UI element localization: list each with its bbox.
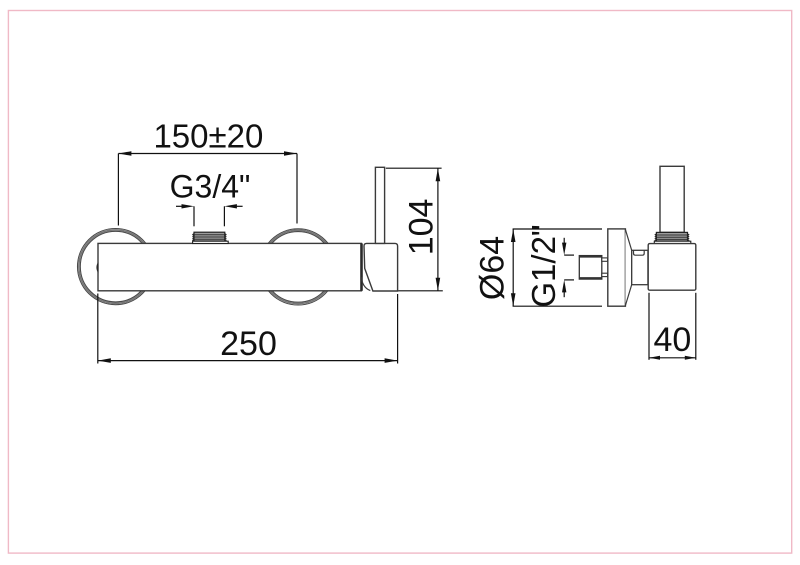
- ext line left: [117, 154, 119, 226]
- pipe thread: [655, 232, 689, 241]
- dim line: [98, 360, 398, 362]
- handle end cap: [364, 243, 398, 291]
- escutcheon cone: [625, 230, 631, 306]
- bar left cap arc: [96, 262, 98, 273]
- ext line top: [513, 228, 602, 230]
- arrow left: [649, 356, 660, 360]
- arrow top: [436, 168, 441, 181]
- dim line: [437, 168, 439, 291]
- arrow right: [385, 358, 398, 363]
- dimension 104: [386, 168, 443, 291]
- ext line right: [695, 293, 697, 360]
- pipe flange: [654, 241, 691, 243]
- arrow bottom: [436, 278, 441, 291]
- right escutcheon circle: [260, 229, 336, 305]
- svg-text:G3/4": G3/4": [170, 169, 251, 205]
- svg-text:Ø64: Ø64: [474, 236, 512, 300]
- G3/4 leader left: [176, 204, 194, 226]
- svg-text:G1/2": G1/2": [525, 224, 562, 307]
- svg-text:150±20: 150±20: [153, 118, 263, 155]
- dimension Ø64: [511, 229, 602, 306]
- G1/2 nipple: [579, 256, 602, 280]
- mixer body bar: [98, 243, 361, 290]
- thread relief ticks top: [602, 258, 608, 261]
- ext line right: [397, 294, 399, 364]
- dim line: [649, 357, 696, 359]
- dim line: [118, 153, 297, 155]
- svg-text:104: 104: [403, 199, 441, 256]
- dimension 40: [649, 293, 696, 360]
- G3/4 leader right: [224, 204, 242, 226]
- neck: [632, 250, 648, 284]
- arrow left: [118, 151, 131, 156]
- G1/2 leader bottom: [562, 280, 574, 297]
- svg-text:250: 250: [220, 325, 277, 363]
- handle lower arc: [362, 277, 371, 290]
- arrow top: [511, 229, 516, 242]
- dim line: [512, 229, 514, 306]
- lever rod: [375, 167, 384, 243]
- bar right thick edge: [360, 243, 363, 290]
- arrow right: [284, 151, 297, 156]
- ext line bottom: [398, 290, 443, 292]
- arrow right: [685, 356, 696, 360]
- G3/4 flange: [193, 241, 229, 243]
- ext line top: [386, 167, 442, 169]
- valve body block: [648, 244, 696, 291]
- ext line right: [296, 154, 298, 224]
- dimension 250: [98, 294, 398, 364]
- outlet pipe: [660, 166, 684, 232]
- escutcheon plate (side): [608, 229, 626, 306]
- svg-text:40: 40: [653, 321, 691, 359]
- thread relief ticks bottom: [602, 273, 608, 276]
- G1/2 leader top: [562, 238, 574, 255]
- arrow left: [98, 358, 111, 363]
- dimension 150±20: [118, 151, 297, 225]
- ext line left: [648, 293, 650, 360]
- arrow bottom: [511, 293, 516, 306]
- ext line bottom: [513, 305, 602, 307]
- G3/4 threaded inlet: [193, 232, 226, 241]
- left escutcheon circle: [78, 229, 154, 305]
- neck notch: [634, 251, 645, 256]
- ext line left: [97, 294, 99, 364]
